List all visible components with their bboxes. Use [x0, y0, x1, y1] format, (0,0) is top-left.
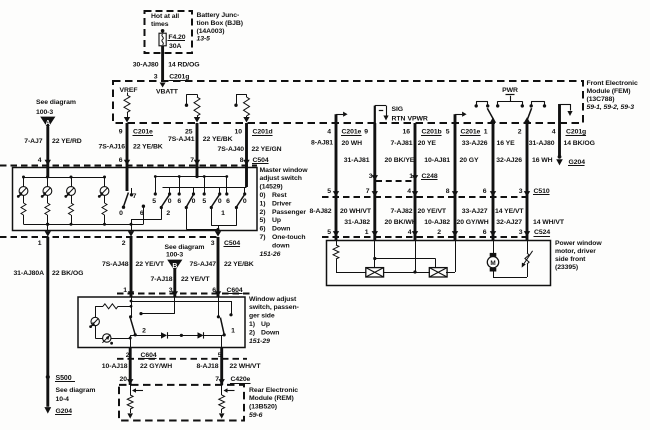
- svg-text:6): 6): [260, 226, 266, 233]
- illumination lamp 1: [95, 306, 97, 317]
- svg-text:100-3: 100-3: [166, 251, 183, 258]
- connector pin arrows into passenger switch: [128, 291, 134, 297]
- svg-text:22 YE/RD: 22 YE/RD: [52, 138, 82, 145]
- svg-text:C504: C504: [224, 240, 240, 247]
- svg-text:7: 7: [133, 193, 137, 200]
- wire 7-AJ7 into lamp bus: [46, 168, 49, 178]
- svg-text:33-AJ27: 33-AJ27: [462, 208, 488, 215]
- svg-text:22 WH/VT: 22 WH/VT: [230, 363, 262, 370]
- svg-text:16: 16: [403, 129, 411, 136]
- wire to thermal element 1: [336, 272, 367, 274]
- internal terminal hook wire 10-AJ81: [454, 114, 457, 123]
- connector pin arrow wire 7S-AJ40 into FEM: [243, 117, 249, 123]
- svg-text:VBATT: VBATT: [156, 89, 179, 96]
- svg-text:PWR: PWR: [502, 87, 518, 94]
- wire stub pin 6 into switch: [218, 297, 220, 316]
- master window adjust switch 14529 box: [13, 168, 258, 231]
- wire 8-AJ18 22 WH/VT: [220, 348, 223, 386]
- svg-text:C420e: C420e: [231, 376, 251, 383]
- switch 2 lever b: [186, 195, 193, 207]
- svg-text:See diagram: See diagram: [165, 244, 205, 251]
- internal terminal hook wire 31-AJ80: [558, 104, 561, 123]
- switch 1 output routing: [186, 208, 188, 230]
- one-touch contact 7 stub: [131, 188, 133, 194]
- svg-text:33-AJ26: 33-AJ26: [462, 140, 488, 147]
- svg-text:3: 3: [519, 188, 523, 195]
- svg-text:8: 8: [446, 188, 450, 195]
- svg-text:59-6: 59-6: [249, 412, 263, 419]
- svg-text:2: 2: [122, 240, 126, 247]
- svg-text:7S-AJ40: 7S-AJ40: [218, 146, 245, 153]
- svg-text:5: 5: [446, 129, 450, 136]
- svg-text:16 WH: 16 WH: [532, 157, 553, 164]
- PWR switch contact bar left: [476, 101, 488, 103]
- off-page connector A: [40, 117, 55, 129]
- svg-text:4: 4: [552, 129, 556, 136]
- switch 1 lever a: [211, 195, 219, 207]
- connector pin arrows at C248: [372, 175, 378, 181]
- svg-text:5): 5): [260, 217, 266, 224]
- connector pin arrow wire 33-AJ26: [490, 117, 496, 123]
- svg-text:20 WH: 20 WH: [342, 140, 363, 147]
- svg-text:7-AJ81: 7-AJ81: [391, 140, 413, 147]
- resistor with pickoff at wire 7S-AJ41: [197, 94, 199, 97]
- illumination resistor feed: [95, 306, 103, 308]
- svg-text:7S-AJ48: 7S-AJ48: [102, 261, 129, 268]
- connector C524 dashed line: [322, 236, 532, 238]
- svg-text:22 YE/VT: 22 YE/VT: [136, 261, 165, 268]
- svg-text:adjust switch: adjust switch: [260, 175, 302, 182]
- svg-text:5: 5: [152, 198, 156, 205]
- connector C604 bottom dashed line: [117, 358, 247, 360]
- connector pin arrows into master switch: [45, 160, 51, 166]
- REM internal tap left: [130, 385, 132, 395]
- svg-text:1: 1: [484, 129, 488, 136]
- svg-text:C248: C248: [422, 173, 438, 180]
- svg-text:Up: Up: [261, 321, 270, 328]
- svg-text:13-5: 13-5: [197, 36, 211, 43]
- svg-text:7: 7: [366, 188, 370, 195]
- svg-text:See diagram: See diagram: [56, 387, 96, 394]
- ground G204 right: [558, 155, 562, 159]
- internal terminal SIG RTN at wire 31-AJ81: [374, 106, 376, 123]
- svg-text:VREF: VREF: [120, 87, 138, 94]
- svg-text:0: 0: [168, 198, 172, 205]
- illumination lamp at x=23.5: [23, 177, 25, 187]
- lamp dropping resistor at x=23.5: [23, 195, 25, 203]
- fuse F4.20 30A: [161, 29, 165, 33]
- svg-text:6: 6: [483, 188, 487, 195]
- switch bus L1 up contacts: [155, 176, 227, 178]
- off-page connector B: [167, 260, 182, 271]
- svg-text:0: 0: [243, 198, 247, 205]
- svg-text:31-AJ80A: 31-AJ80A: [13, 270, 44, 277]
- switch 1 lever b: [236, 195, 244, 207]
- wire 7-AJ81 20 YE then 20 YE/VT: [414, 123, 417, 241]
- svg-text:(14529): (14529): [260, 184, 283, 191]
- svg-text:10: 10: [235, 129, 243, 136]
- PWR switch contact bar right: [531, 101, 544, 103]
- internal terminal hook wire 8-AJ81: [335, 114, 338, 123]
- svg-text:2): 2): [249, 329, 255, 336]
- svg-text:6: 6: [483, 229, 487, 236]
- wire 10-AJ81 20 GY then 20 GY/WH: [454, 123, 457, 241]
- wire stub pin 1 into switch: [131, 297, 133, 316]
- svg-text:1: 1: [221, 210, 225, 217]
- svg-text:30-AJ80: 30-AJ80: [133, 62, 159, 69]
- svg-text:G204: G204: [569, 159, 586, 166]
- svg-text:8-AJ18: 8-AJ18: [197, 363, 219, 370]
- svg-text:Up: Up: [272, 217, 281, 224]
- power window motor driver side front box: [327, 241, 551, 286]
- svg-text:A: A: [45, 120, 50, 127]
- REM internal tap right: [221, 385, 223, 395]
- svg-text:C504: C504: [253, 157, 269, 164]
- svg-text:5: 5: [327, 229, 331, 236]
- connector C504 bottom dashed line: [0, 236, 220, 238]
- svg-text:(13B520): (13B520): [249, 404, 277, 411]
- svg-text:0: 0: [192, 198, 196, 205]
- svg-text:2: 2: [518, 129, 522, 136]
- svg-text:22 YE/BK: 22 YE/BK: [133, 144, 163, 151]
- circuit breaker self-resetting: [527, 241, 529, 254]
- svg-text:20 YE/VT: 20 YE/VT: [418, 208, 447, 215]
- svg-text:F4.20: F4.20: [168, 34, 185, 41]
- wire 7-AJ18 22 YE/VT: [173, 269, 176, 297]
- connector pin arrows at C510: [333, 191, 339, 197]
- svg-text:16 YE: 16 YE: [497, 140, 516, 147]
- switch lever to wire 32-AJ26: [527, 108, 531, 119]
- svg-text:Module (REM): Module (REM): [249, 395, 294, 402]
- diode D1: [161, 332, 167, 338]
- svg-text:3: 3: [369, 173, 373, 180]
- wire pin 4 junction: [415, 241, 417, 273]
- connector pin arrow wire 32-AJ26: [524, 117, 530, 123]
- svg-text:Power window: Power window: [555, 240, 602, 247]
- svg-text:30A: 30A: [169, 43, 181, 50]
- switch bus L2 rest contacts: [163, 187, 247, 189]
- svg-text:7): 7): [260, 234, 266, 241]
- svg-text:7S-AJ16: 7S-AJ16: [99, 144, 126, 151]
- svg-text:6: 6: [140, 210, 144, 217]
- PWR switch contact bar center: [498, 101, 523, 103]
- svg-text:C201d: C201d: [253, 129, 273, 136]
- svg-text:4: 4: [407, 188, 411, 195]
- wire pin 1 to thermal elements: [374, 241, 376, 269]
- svg-text:1: 1: [123, 287, 127, 294]
- connector C604 top dashed line: [117, 293, 250, 295]
- passenger switch lever 2: [130, 318, 135, 335]
- wire between thermal elements: [383, 272, 430, 274]
- svg-text:2: 2: [166, 210, 170, 217]
- switch lever to wire 33-AJ26: [487, 108, 493, 119]
- battery junction box BJB dashed enclosure: [145, 11, 193, 53]
- svg-text:20 GY/WH: 20 GY/WH: [457, 219, 489, 226]
- svg-text:10-AJ18: 10-AJ18: [102, 363, 128, 370]
- svg-text:2): 2): [260, 209, 266, 216]
- svg-text:Driver: Driver: [272, 200, 292, 207]
- svg-text:9: 9: [364, 129, 368, 136]
- REM pulldown resistor right: [219, 395, 225, 409]
- svg-text:10-AJ81: 10-AJ81: [424, 157, 450, 164]
- svg-text:22 YE/BK: 22 YE/BK: [224, 261, 254, 268]
- wire stub pin 3 to contact: [174, 297, 176, 314]
- wire 7S-AJ40 to bus L2: [245, 168, 248, 188]
- svg-text:20 BK/YE: 20 BK/YE: [385, 157, 415, 164]
- connector C248 dashed line: [376, 180, 415, 182]
- svg-text:8-AJ82: 8-AJ82: [310, 208, 332, 215]
- svg-text:Master window: Master window: [260, 167, 309, 174]
- connector C504 top dashed line: [0, 165, 257, 167]
- svg-text:22 GY/WH: 22 GY/WH: [140, 363, 172, 370]
- REM internal arrow left: [127, 413, 133, 418]
- svg-text:22 BK/OG: 22 BK/OG: [52, 270, 83, 277]
- svg-text:See diagram: See diagram: [36, 99, 76, 106]
- svg-text:switch, passen-: switch, passen-: [249, 304, 299, 311]
- connector pin arrows into REM: [127, 379, 133, 385]
- svg-text:times: times: [151, 21, 169, 28]
- svg-text:7: 7: [190, 157, 194, 164]
- svg-text:1: 1: [231, 328, 235, 335]
- motor internal resistor at pin 5: [336, 241, 338, 246]
- svg-text:7S-AJ41: 7S-AJ41: [168, 136, 195, 143]
- svg-text:1: 1: [365, 229, 369, 236]
- lamp dropping resistor at x=71: [71, 195, 73, 203]
- svg-text:14 BK/OG: 14 BK/OG: [564, 140, 595, 147]
- svg-text:1: 1: [38, 240, 42, 247]
- svg-text:C201g: C201g: [566, 129, 586, 136]
- svg-text:5: 5: [202, 198, 206, 205]
- svg-text:ger side: ger side: [249, 313, 275, 320]
- passenger switch lever 1: [220, 318, 224, 335]
- svg-text:6: 6: [177, 198, 181, 205]
- svg-text:Battery Junc-: Battery Junc-: [197, 12, 240, 19]
- svg-text:(23395): (23395): [555, 264, 578, 271]
- svg-text:32-AJ26: 32-AJ26: [496, 157, 522, 164]
- PWR feed tick: [510, 96, 512, 101]
- svg-text:(13C788): (13C788): [587, 96, 615, 103]
- wire 7-AJ7 22 YE/RD: [46, 127, 49, 168]
- svg-text:20 GY: 20 GY: [460, 157, 480, 164]
- svg-text:Window adjust: Window adjust: [249, 296, 297, 303]
- svg-text:3: 3: [211, 240, 215, 247]
- connector pin arrow wire 7S-AJ16 into FEM: [124, 117, 130, 123]
- svg-text:7S-AJ47: 7S-AJ47: [190, 261, 217, 268]
- wire 32-AJ26 16 WH then 14 WH/VT: [526, 123, 529, 241]
- svg-text:C201e: C201e: [133, 129, 153, 136]
- svg-text:5: 5: [327, 188, 331, 195]
- resistor with pickoff at wire 7S-AJ40: [246, 94, 248, 97]
- svg-text:0: 0: [119, 210, 123, 217]
- svg-text:1): 1): [249, 321, 255, 328]
- svg-text:7: 7: [215, 376, 219, 383]
- wire fuse to FEM VBATT: [161, 46, 164, 81]
- switch output drop pin 2: [130, 335, 132, 347]
- thermal protector X1: [366, 268, 384, 277]
- illumination lamp at x=71: [71, 177, 73, 187]
- lamp dropping resistor at x=104.5: [104, 195, 106, 203]
- svg-text:C524: C524: [534, 229, 550, 236]
- svg-text:10-AJ82: 10-AJ82: [424, 219, 450, 226]
- wire 7S-AJ40 22 YE/GN: [245, 123, 248, 168]
- lamp ground drop to pin 1: [47, 224, 49, 230]
- illumination lamp 2: [95, 326, 97, 338]
- svg-text:4: 4: [38, 157, 42, 164]
- svg-text:31-AJ80: 31-AJ80: [529, 140, 555, 147]
- svg-text:C201e: C201e: [461, 129, 481, 136]
- svg-text:22 YE/BK: 22 YE/BK: [203, 136, 233, 143]
- node VBATT terminal arrow: [160, 83, 166, 88]
- wire 7S-AJ47 22 YE/BK: [217, 237, 220, 297]
- connector pin arrows out of master switch: [45, 231, 51, 237]
- REM internal arrow right: [219, 413, 225, 418]
- REM pulldown resistor left: [127, 395, 133, 409]
- svg-text:31-AJ81: 31-AJ81: [344, 157, 370, 164]
- connector pin arrows at C524: [333, 231, 339, 237]
- svg-text:14 WH/VT: 14 WH/VT: [533, 219, 565, 226]
- switch output drop pin 5: [221, 335, 223, 347]
- wire 31-AJ80 14 BK/OG to ground: [558, 123, 561, 158]
- svg-text:C604: C604: [141, 352, 157, 359]
- svg-text:20 YE: 20 YE: [418, 140, 437, 147]
- svg-text:VPWR: VPWR: [408, 116, 428, 123]
- motor M armature: [493, 241, 495, 254]
- svg-text:4: 4: [408, 229, 412, 236]
- wire 31-AJ81 20 BK/YE then 20 BK/WH: [373, 123, 376, 241]
- svg-text:6: 6: [226, 198, 230, 205]
- svg-text:0: 0: [218, 198, 222, 205]
- svg-text:6: 6: [119, 157, 123, 164]
- svg-text:Rest: Rest: [272, 192, 287, 199]
- svg-text:Module (FEM): Module (FEM): [587, 88, 631, 95]
- thermal protector X2: [429, 268, 447, 277]
- connector pin arrow wire 7S-AJ41 into FEM: [194, 117, 200, 123]
- svg-text:0): 0): [260, 192, 266, 199]
- svg-text:2: 2: [142, 328, 146, 335]
- svg-text:25: 25: [185, 129, 193, 136]
- wire thermal element 2 to pin 2: [446, 272, 455, 274]
- svg-text:8-AJ81: 8-AJ81: [311, 140, 333, 147]
- motor return wire: [493, 277, 527, 279]
- one-touch contact 6 stub: [143, 207, 145, 224]
- svg-text:10-4: 10-4: [56, 396, 70, 403]
- svg-text:tion Box (BJB): tion Box (BJB): [197, 20, 243, 27]
- illumination lamp at x=104.5: [104, 177, 106, 187]
- wire 7S-AJ41 to bus L1: [196, 168, 199, 177]
- svg-text:20 BK/WH: 20 BK/WH: [385, 219, 417, 226]
- svg-text:SIG: SIG: [392, 106, 404, 113]
- svg-text:G204: G204: [56, 408, 73, 415]
- svg-text:Passenger: Passenger: [272, 209, 306, 216]
- svg-text:down: down: [272, 242, 290, 249]
- svg-text:14 YE/VT: 14 YE/VT: [495, 208, 524, 215]
- front electronic module FEM dashed enclosure: [113, 81, 583, 123]
- svg-text:22 YE/GN: 22 YE/GN: [252, 146, 282, 153]
- svg-text:motor, driver: motor, driver: [555, 248, 596, 255]
- switch 2 output routing: [161, 208, 163, 220]
- svg-text:C201e: C201e: [342, 129, 362, 136]
- lamp dropping resistor at x=47.4: [47, 195, 49, 203]
- svg-text:31-AJ82: 31-AJ82: [344, 219, 370, 226]
- svg-text:7-AJ82: 7-AJ82: [391, 208, 413, 215]
- svg-text:151-26: 151-26: [260, 251, 281, 258]
- svg-text:RTN: RTN: [392, 116, 406, 123]
- wire 10-AJ18 22 GY/WH: [129, 348, 132, 386]
- svg-text:7-AJ7: 7-AJ7: [24, 138, 43, 145]
- svg-text:8: 8: [240, 157, 244, 164]
- diode D2: [198, 332, 204, 338]
- svg-text:9: 9: [119, 129, 123, 136]
- svg-text:side front: side front: [555, 256, 586, 263]
- window adjust switch passenger side box: [78, 297, 245, 348]
- svg-text:14 RD/OG: 14 RD/OG: [168, 62, 199, 69]
- splice S500: [46, 375, 50, 379]
- connector C510 dashed line: [322, 196, 528, 198]
- ground G204 left: [44, 407, 51, 414]
- svg-text:20: 20: [120, 376, 128, 383]
- svg-text:Down: Down: [272, 226, 290, 233]
- svg-text:1): 1): [260, 200, 266, 207]
- svg-text:4: 4: [327, 129, 331, 136]
- svg-text:3: 3: [154, 74, 158, 81]
- svg-text:C201b: C201b: [422, 129, 442, 136]
- illumination lamp bus top: [24, 177, 105, 179]
- svg-text:M: M: [490, 260, 495, 267]
- svg-text:One-touch: One-touch: [272, 234, 306, 241]
- wire 7S-AJ16 22 YE/BK: [126, 123, 129, 168]
- svg-text:(14A003): (14A003): [197, 28, 225, 35]
- svg-text:C201g: C201g: [169, 74, 189, 81]
- illumination lamp bus bottom: [24, 224, 144, 226]
- svg-text:151-29: 151-29: [249, 338, 270, 345]
- switch common bus with diodes: [130, 335, 161, 337]
- resistor VREF pullup: [127, 93, 129, 96]
- svg-text:20 WH/VT: 20 WH/VT: [340, 208, 372, 215]
- contact stubs from L2: [169, 187, 171, 193]
- svg-text:Front Electronic: Front Electronic: [587, 80, 638, 87]
- svg-text:100-3: 100-3: [36, 109, 53, 116]
- wire 33-AJ26 16 YE then 14 YE/VT: [492, 123, 495, 241]
- svg-text:3: 3: [519, 229, 523, 236]
- svg-text:S500: S500: [56, 375, 72, 382]
- svg-text:59-1, 59-2, 59-3: 59-1, 59-2, 59-3: [587, 104, 635, 111]
- svg-text:2: 2: [437, 229, 441, 236]
- contact stubs from L1: [155, 177, 157, 193]
- wire 7S-AJ41 22 YE/BK: [196, 123, 199, 168]
- svg-text:32-AJ27: 32-AJ27: [496, 219, 522, 226]
- svg-text:7-AJ18: 7-AJ18: [151, 276, 173, 283]
- svg-text:Down: Down: [261, 329, 279, 336]
- svg-text:22 YE/VT: 22 YE/VT: [181, 276, 210, 283]
- wire 31-AJ80A 22 BK/OG ground wire: [46, 237, 49, 407]
- illumination lamp at x=47.4: [47, 177, 49, 187]
- svg-text:Rear Electronic: Rear Electronic: [249, 387, 298, 394]
- svg-text:Hot at all: Hot at all: [151, 13, 179, 20]
- feed line to contact of switch 1: [131, 301, 231, 303]
- switch 2 lever a: [161, 195, 169, 207]
- one-touch switch 7 lever: [126, 168, 129, 192]
- wire 7S-AJ48 22 YE/VT: [130, 237, 133, 297]
- wire 8-AJ81 20 WH then 20 WH/VT: [335, 123, 338, 241]
- rear electronic module REM dashed enclosure: [119, 385, 244, 421]
- svg-text:C510: C510: [534, 188, 550, 195]
